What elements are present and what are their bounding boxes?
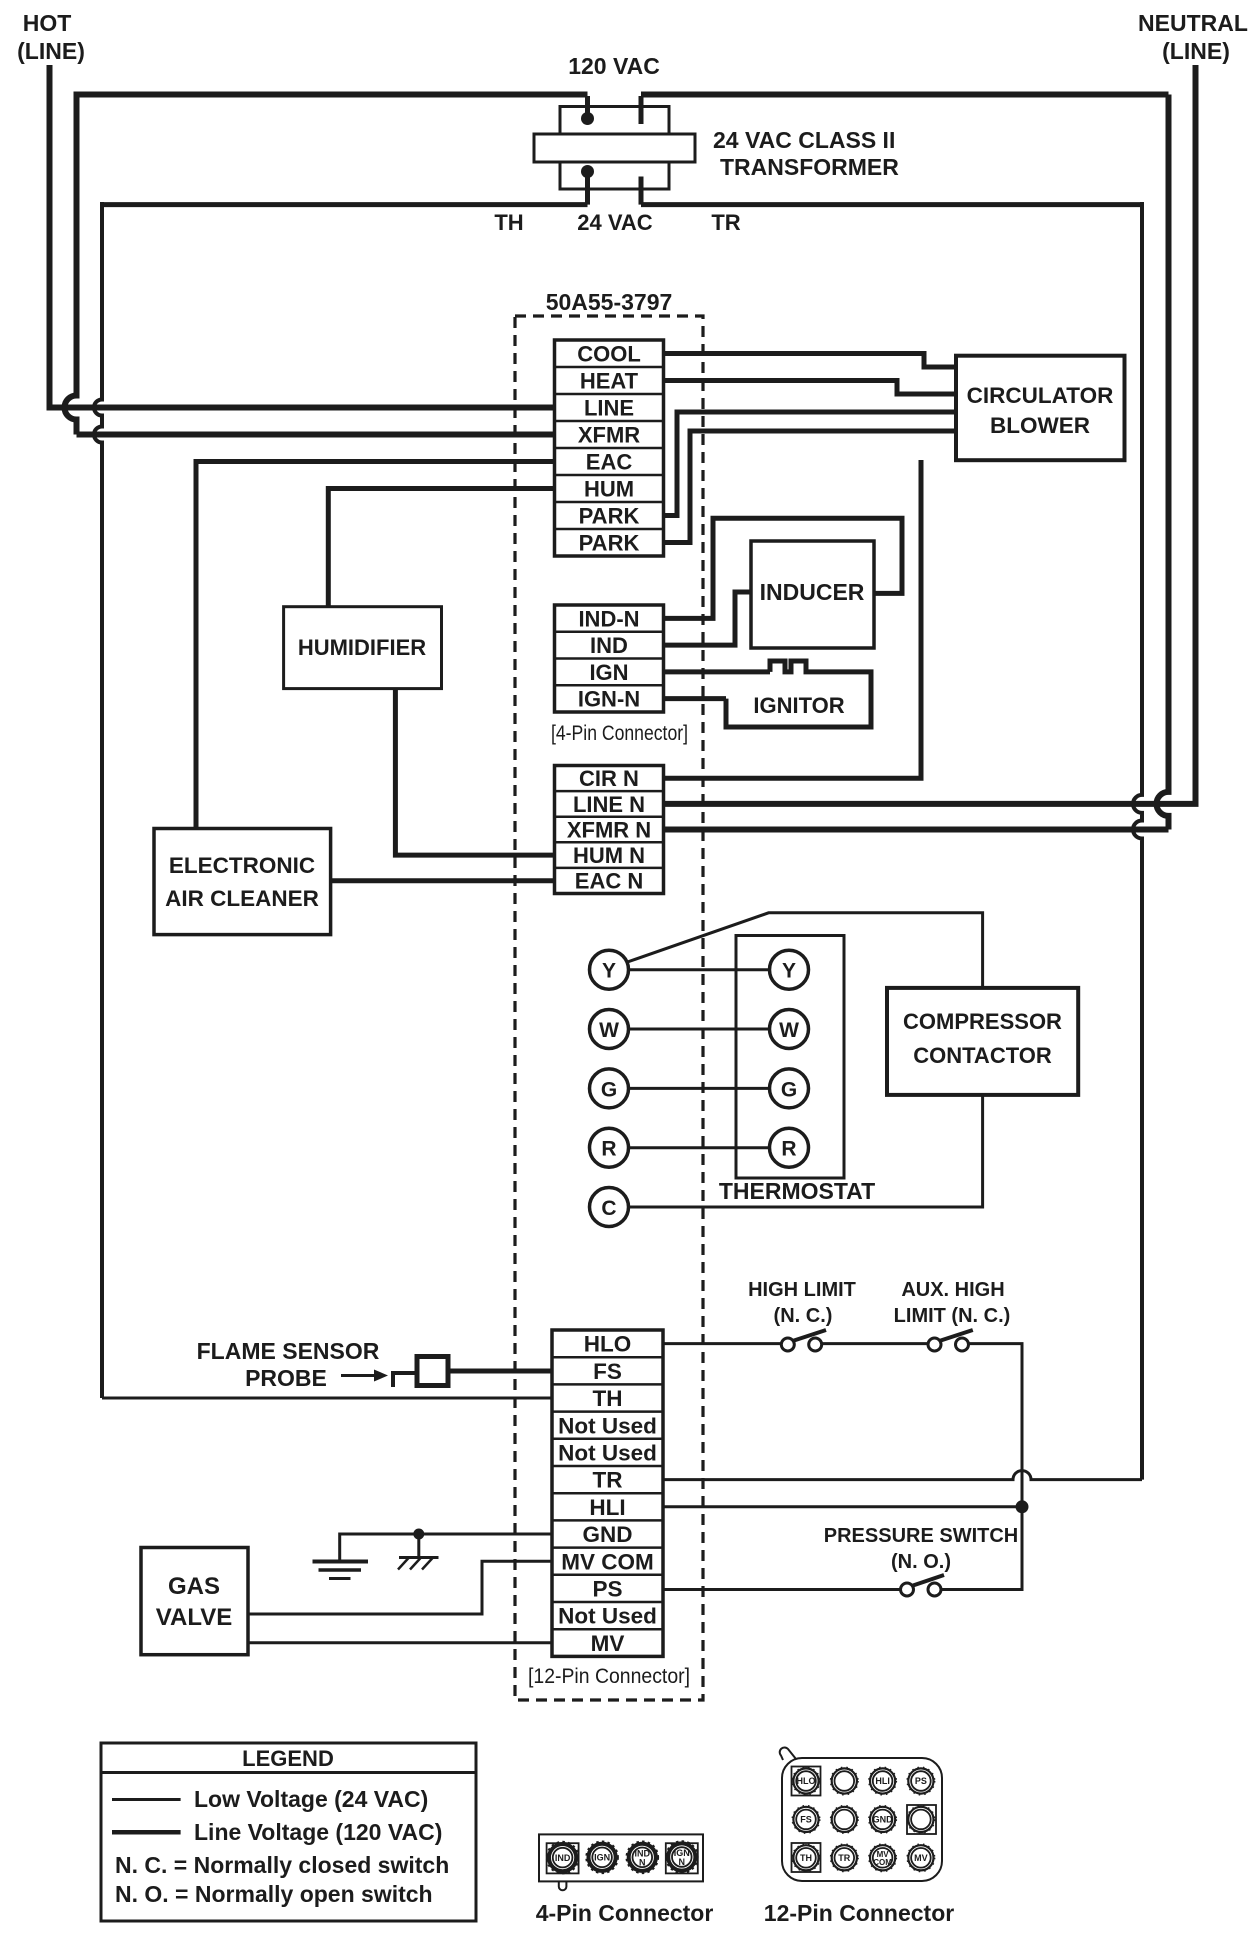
svg-text:TR: TR <box>593 1468 623 1493</box>
svg-text:N. C. = Normally closed switch: N. C. = Normally closed switch <box>115 1852 449 1878</box>
svg-text:FS: FS <box>593 1359 622 1384</box>
icon 12-pin connector pin MV r3c4 <box>907 1844 934 1871</box>
thermostat terminal W <box>770 1010 809 1049</box>
wire EAC terminal to electronic air cleaner top <box>196 462 556 829</box>
component ELECTRONIC AIR CLEANER <box>154 829 331 935</box>
svg-text:AIR CLEANER: AIR CLEANER <box>165 886 319 911</box>
wire electronic air cleaner to EAC N terminal <box>331 878 556 883</box>
icon 12-pin connector HLO square <box>792 1767 821 1796</box>
node junction dot on GND wire <box>413 1529 424 1540</box>
svg-text:N: N <box>679 1857 686 1867</box>
svg-text:24 VAC CLASS II: 24 VAC CLASS II <box>713 127 895 153</box>
icon 4-pin connector pin IGN <box>586 1842 618 1874</box>
svg-text:N: N <box>639 1857 646 1867</box>
svg-text:HLI: HLI <box>589 1495 625 1520</box>
node junction dot HLI / limit switches / pressure switch <box>1016 1500 1029 1513</box>
svg-text:TH: TH <box>800 1853 812 1863</box>
terminal strip: CIR N, LINE N, XFMR N, HUM N, EAC N <box>555 766 664 894</box>
svg-text:NEUTRAL: NEUTRAL <box>1138 10 1248 36</box>
switch AUX. HIGH LIMIT N.C. contacts <box>928 1330 973 1351</box>
icon 12-pin connector pin HLI r1c3 <box>869 1767 896 1794</box>
svg-text:PROBE: PROBE <box>245 1365 327 1391</box>
transformer T1 secondary left terminal with dot (TH) <box>581 165 594 205</box>
svg-text:CIR N: CIR N <box>579 766 639 791</box>
svg-text:PARK: PARK <box>579 503 640 528</box>
wire NEUTRAL main vertical down to LINE N terminal <box>662 65 1196 804</box>
ground chassis symbol <box>398 1534 439 1570</box>
svg-text:N. O. = Normally open switch: N. O. = Normally open switch <box>115 1881 433 1907</box>
transformer T1 primary left terminal with dot <box>581 96 594 125</box>
wire Y terminal diagonal to compressor contactor top <box>626 913 983 988</box>
terminal strip: HLO FS TH TR HLI GND MV COM PS MV (12-pin) <box>552 1330 663 1656</box>
wire COOL terminal to circulator blower <box>664 354 957 368</box>
svg-text:IND-N: IND-N <box>578 606 639 631</box>
svg-text:Y: Y <box>782 960 796 983</box>
wire IGN terminal to ignitor with resistive element <box>664 661 820 672</box>
svg-text:FS: FS <box>800 1815 812 1825</box>
svg-text:ELECTRONIC: ELECTRONIC <box>169 853 315 878</box>
svg-text:MV: MV <box>914 1853 928 1863</box>
svg-text:Not Used: Not Used <box>558 1604 657 1629</box>
svg-text:COMPRESSOR: COMPRESSOR <box>903 1009 1062 1034</box>
svg-text:G: G <box>781 1078 797 1101</box>
svg-text:120 VAC: 120 VAC <box>568 53 660 79</box>
icon 12-pin connector pin TH r3c1 <box>792 1844 819 1871</box>
svg-text:IGN: IGN <box>594 1853 610 1863</box>
svg-text:GAS: GAS <box>168 1573 220 1600</box>
icon 12-pin connector blank pin square <box>907 1805 936 1834</box>
terminal strip: COOL HEAT LINE XFMR EAC HUM PARK PARK <box>555 340 664 556</box>
svg-text:PRESSURE SWITCH: PRESSURE SWITCH <box>824 1525 1018 1547</box>
icon 12-pin connector pin blank r2c4 <box>907 1806 934 1833</box>
node HOT (LINE) label <box>17 10 85 64</box>
svg-text:[12-Pin Connector]: [12-Pin Connector] <box>528 1665 690 1688</box>
svg-text:Low Voltage (24 VAC): Low Voltage (24 VAC) <box>194 1786 428 1812</box>
label FLAME SENSOR PROBE <box>197 1338 380 1391</box>
svg-text:IND: IND <box>555 1853 571 1863</box>
svg-text:INDUCER: INDUCER <box>760 579 865 605</box>
icon 12-pin connector pin TR r3c2 <box>831 1844 858 1871</box>
svg-text:IGN: IGN <box>589 660 628 685</box>
svg-text:CONTACTOR: CONTACTOR <box>913 1043 1052 1068</box>
svg-text:HLO: HLO <box>797 1776 816 1786</box>
svg-text:W: W <box>599 1019 619 1042</box>
board terminal Y <box>590 950 629 989</box>
svg-text:MV: MV <box>591 1631 625 1656</box>
component GAS VALVE <box>141 1548 248 1655</box>
svg-text:TRANSFORMER: TRANSFORMER <box>720 154 899 180</box>
wire W terminal to thermostat W <box>628 1028 770 1031</box>
wire MV COM terminal to gas valve <box>248 1561 553 1614</box>
svg-text:(N. C.): (N. C.) <box>774 1305 833 1327</box>
switch HIGH LIMIT N.C. contacts <box>781 1330 826 1351</box>
wire junction down to pressure switch <box>941 1507 1022 1590</box>
svg-text:BLOWER: BLOWER <box>990 413 1090 438</box>
svg-text:TH: TH <box>593 1386 623 1411</box>
icon 4-pin connector pin IND N <box>627 1842 659 1874</box>
component COMPRESSOR CONTACTOR <box>887 988 1078 1095</box>
label 24 VAC CLASS II TRANSFORMER <box>713 127 899 180</box>
terminal strip: IND-N IND IGN IGN-N (4-pin) <box>555 605 664 712</box>
transformer T1 primary right terminal <box>639 96 644 124</box>
component THERMOSTAT box <box>719 936 875 1205</box>
svg-text:HLI: HLI <box>875 1776 890 1786</box>
wire between high limit and aux high limit switches <box>822 1342 928 1345</box>
board terminal W <box>590 1010 629 1049</box>
ground earth symbol <box>313 1562 369 1579</box>
wire HLO terminal to high limit switch <box>663 1342 781 1345</box>
wire MV terminal to gas valve <box>248 1641 553 1644</box>
svg-text:COM: COM <box>873 1858 892 1867</box>
svg-text:TR: TR <box>711 210 740 235</box>
board 50A55-3797 dashed outline <box>515 316 703 1700</box>
component CIRCULATOR BLOWER <box>956 356 1125 461</box>
wire HLI terminal to junction <box>663 1505 1022 1508</box>
svg-text:G: G <box>601 1078 617 1101</box>
svg-text:GND: GND <box>583 1522 633 1547</box>
thermostat terminal G <box>770 1069 809 1108</box>
wire HOT vertical drop to LINE terminal <box>50 65 557 408</box>
svg-text:HEAT: HEAT <box>580 368 639 393</box>
svg-text:HUM: HUM <box>584 476 634 501</box>
svg-text:CIRCULATOR: CIRCULATOR <box>967 383 1114 408</box>
svg-text:HLO: HLO <box>584 1332 632 1357</box>
svg-text:IND: IND <box>590 633 628 658</box>
svg-text:PS: PS <box>915 1776 927 1786</box>
icon 12-pin connector TH square <box>792 1843 821 1872</box>
icon 4-Pin Connector body <box>539 1834 703 1890</box>
wire PARK terminal 2 to circulator blower <box>664 431 957 543</box>
svg-text:R: R <box>601 1138 616 1161</box>
svg-text:THERMOSTAT: THERMOSTAT <box>719 1178 875 1204</box>
flame sensor probe symbol <box>391 1357 448 1388</box>
thermostat terminal Y <box>770 950 809 989</box>
svg-text:HIGH LIMIT: HIGH LIMIT <box>748 1279 856 1301</box>
svg-text:HUMIDIFIER: HUMIDIFIER <box>298 635 426 660</box>
svg-text:LIMIT (N. C.): LIMIT (N. C.) <box>894 1305 1011 1327</box>
component INDUCER <box>751 541 874 648</box>
svg-text:LEGEND: LEGEND <box>242 1746 334 1771</box>
svg-text:EAC: EAC <box>586 449 633 474</box>
wire TR terminal (hops switch leg) to TR trunk riser <box>663 1471 1142 1480</box>
icon 12-pin connector pin FS r2c1 <box>792 1806 819 1833</box>
svg-text:W: W <box>779 1019 799 1042</box>
legend line voltage sample line <box>112 1819 442 1845</box>
wire C terminal to compressor contactor bottom <box>628 1095 983 1207</box>
svg-text:HOT: HOT <box>23 10 72 36</box>
wire CIR N terminal up to circulator blower bottom <box>664 460 922 778</box>
svg-text:50A55-3797: 50A55-3797 <box>546 289 673 315</box>
icon 4-pin connector pin IND <box>547 1842 579 1874</box>
icon 12-pin connector pin GND r2c3 <box>869 1806 896 1833</box>
svg-text:(N. O.): (N. O.) <box>891 1551 951 1573</box>
svg-text:AUX. HIGH: AUX. HIGH <box>901 1279 1004 1301</box>
svg-text:PS: PS <box>592 1577 622 1602</box>
transformer T1 secondary right terminal (TR) <box>639 177 644 205</box>
svg-text:[4-Pin Connector]: [4-Pin Connector] <box>551 722 688 745</box>
svg-text:C: C <box>601 1197 616 1220</box>
svg-text:LINE: LINE <box>584 395 634 420</box>
svg-text:Not Used: Not Used <box>558 1413 657 1438</box>
icon 12-pin connector pin blank r1c2 <box>831 1767 858 1794</box>
icon 4-pin connector pin 4 square <box>666 1843 698 1873</box>
svg-text:Line Voltage (120 VAC): Line Voltage (120 VAC) <box>194 1819 442 1845</box>
svg-text:FLAME SENSOR: FLAME SENSOR <box>197 1338 380 1364</box>
wire PS terminal to pressure switch <box>663 1588 901 1591</box>
wire HEAT terminal to circulator blower <box>664 381 957 395</box>
wire TR trunk: transformer TR terminal down right side (hops LINE N, XFMR N) to TR terminal row <box>641 202 1142 1480</box>
wire 120VAC top right from transformer primary to neutral branch riser <box>641 92 1169 98</box>
arrow pointing to flame sensor probe <box>341 1370 388 1382</box>
svg-text:GND: GND <box>873 1815 894 1825</box>
component IGNITOR box <box>726 672 871 727</box>
svg-text:Not Used: Not Used <box>558 1441 657 1466</box>
svg-text:HUM N: HUM N <box>573 843 645 868</box>
wire IND terminal to inducer left side <box>664 592 752 645</box>
wire Y terminal to thermostat Y <box>628 968 770 971</box>
svg-text:4-Pin Connector: 4-Pin Connector <box>536 1900 714 1926</box>
wire GND terminal to ground symbols <box>340 1534 553 1562</box>
board terminal R <box>590 1128 629 1167</box>
wire TH trunk: transformer TH terminal down left side (hops LINE and XFMR wires) to TH terminal row <box>94 202 588 1398</box>
wire IND-N terminal around to inducer right side <box>664 518 903 618</box>
label HIGH LIMIT (N. C.) <box>748 1279 856 1327</box>
svg-text:IGN-N: IGN-N <box>578 687 640 712</box>
transformer T1 24 VAC CLASS II <box>534 107 695 190</box>
board terminal C <box>590 1188 629 1227</box>
wire HUM terminal to humidifier top <box>328 489 556 607</box>
wire R terminal to thermostat R <box>628 1146 770 1149</box>
wire flame sensor probe to FS terminal <box>448 1369 553 1374</box>
svg-text:XFMR N: XFMR N <box>567 817 651 842</box>
wire XFMR N riser: from 120VAC top right down (hops LINE N) to XFMR N terminal <box>662 95 1169 830</box>
svg-text:24 VAC: 24 VAC <box>577 210 653 235</box>
svg-text:XFMR: XFMR <box>578 422 640 447</box>
wire XFMR riser vertical (hops LINE wire) down to XFMR terminal <box>65 92 557 435</box>
icon 4-pin connector pin 1 square <box>547 1843 579 1873</box>
svg-text:12-Pin Connector: 12-Pin Connector <box>764 1900 954 1926</box>
icon 12-pin connector pin blank r2c2 <box>831 1806 858 1833</box>
wire aux high limit switch down to HLI junction <box>969 1344 1023 1507</box>
thermostat terminal R <box>770 1128 809 1167</box>
wire humidifier bottom to HUM N terminal <box>395 689 556 856</box>
svg-text:R: R <box>781 1138 796 1161</box>
switch PRESSURE SWITCH N.O. contacts <box>901 1575 945 1596</box>
wire 120VAC top left from XFMR riser to transformer primary <box>77 92 588 98</box>
wire PARK terminal 1 to circulator blower <box>664 412 957 516</box>
legend box <box>101 1743 476 1921</box>
label PRESSURE SWITCH (N. O.) <box>824 1525 1018 1573</box>
wire G terminal to thermostat G <box>628 1087 770 1090</box>
label AUX. HIGH LIMIT (N. C.) <box>894 1279 1011 1327</box>
icon 4-pin connector pin IGN N <box>666 1841 698 1873</box>
svg-text:(LINE): (LINE) <box>17 38 85 64</box>
svg-text:EAC N: EAC N <box>575 869 643 894</box>
svg-text:(LINE): (LINE) <box>1162 38 1230 64</box>
svg-text:TH: TH <box>494 210 523 235</box>
svg-text:VALVE: VALVE <box>156 1604 232 1631</box>
icon 12-pin connector pin MV COM r3c3 <box>869 1844 896 1871</box>
icon 12-Pin Connector body <box>780 1747 942 1881</box>
svg-text:LINE N: LINE N <box>573 792 645 817</box>
legend low voltage sample line <box>112 1786 428 1812</box>
icon 12-pin connector pin HLO r1c1 <box>792 1767 819 1794</box>
svg-text:PARK: PARK <box>579 530 640 555</box>
svg-text:MV COM: MV COM <box>561 1549 654 1574</box>
svg-text:COOL: COOL <box>577 341 641 366</box>
component HUMIDIFIER <box>284 607 442 689</box>
svg-text:IGNITOR: IGNITOR <box>753 693 844 718</box>
node NEUTRAL (LINE) label <box>1138 10 1248 64</box>
icon 12-pin connector pin PS r1c4 <box>907 1767 934 1794</box>
board terminal G <box>590 1069 629 1108</box>
svg-text:Y: Y <box>602 960 616 983</box>
svg-text:TR: TR <box>838 1853 850 1863</box>
wire IGN-N terminal to ignitor left side <box>664 696 727 701</box>
